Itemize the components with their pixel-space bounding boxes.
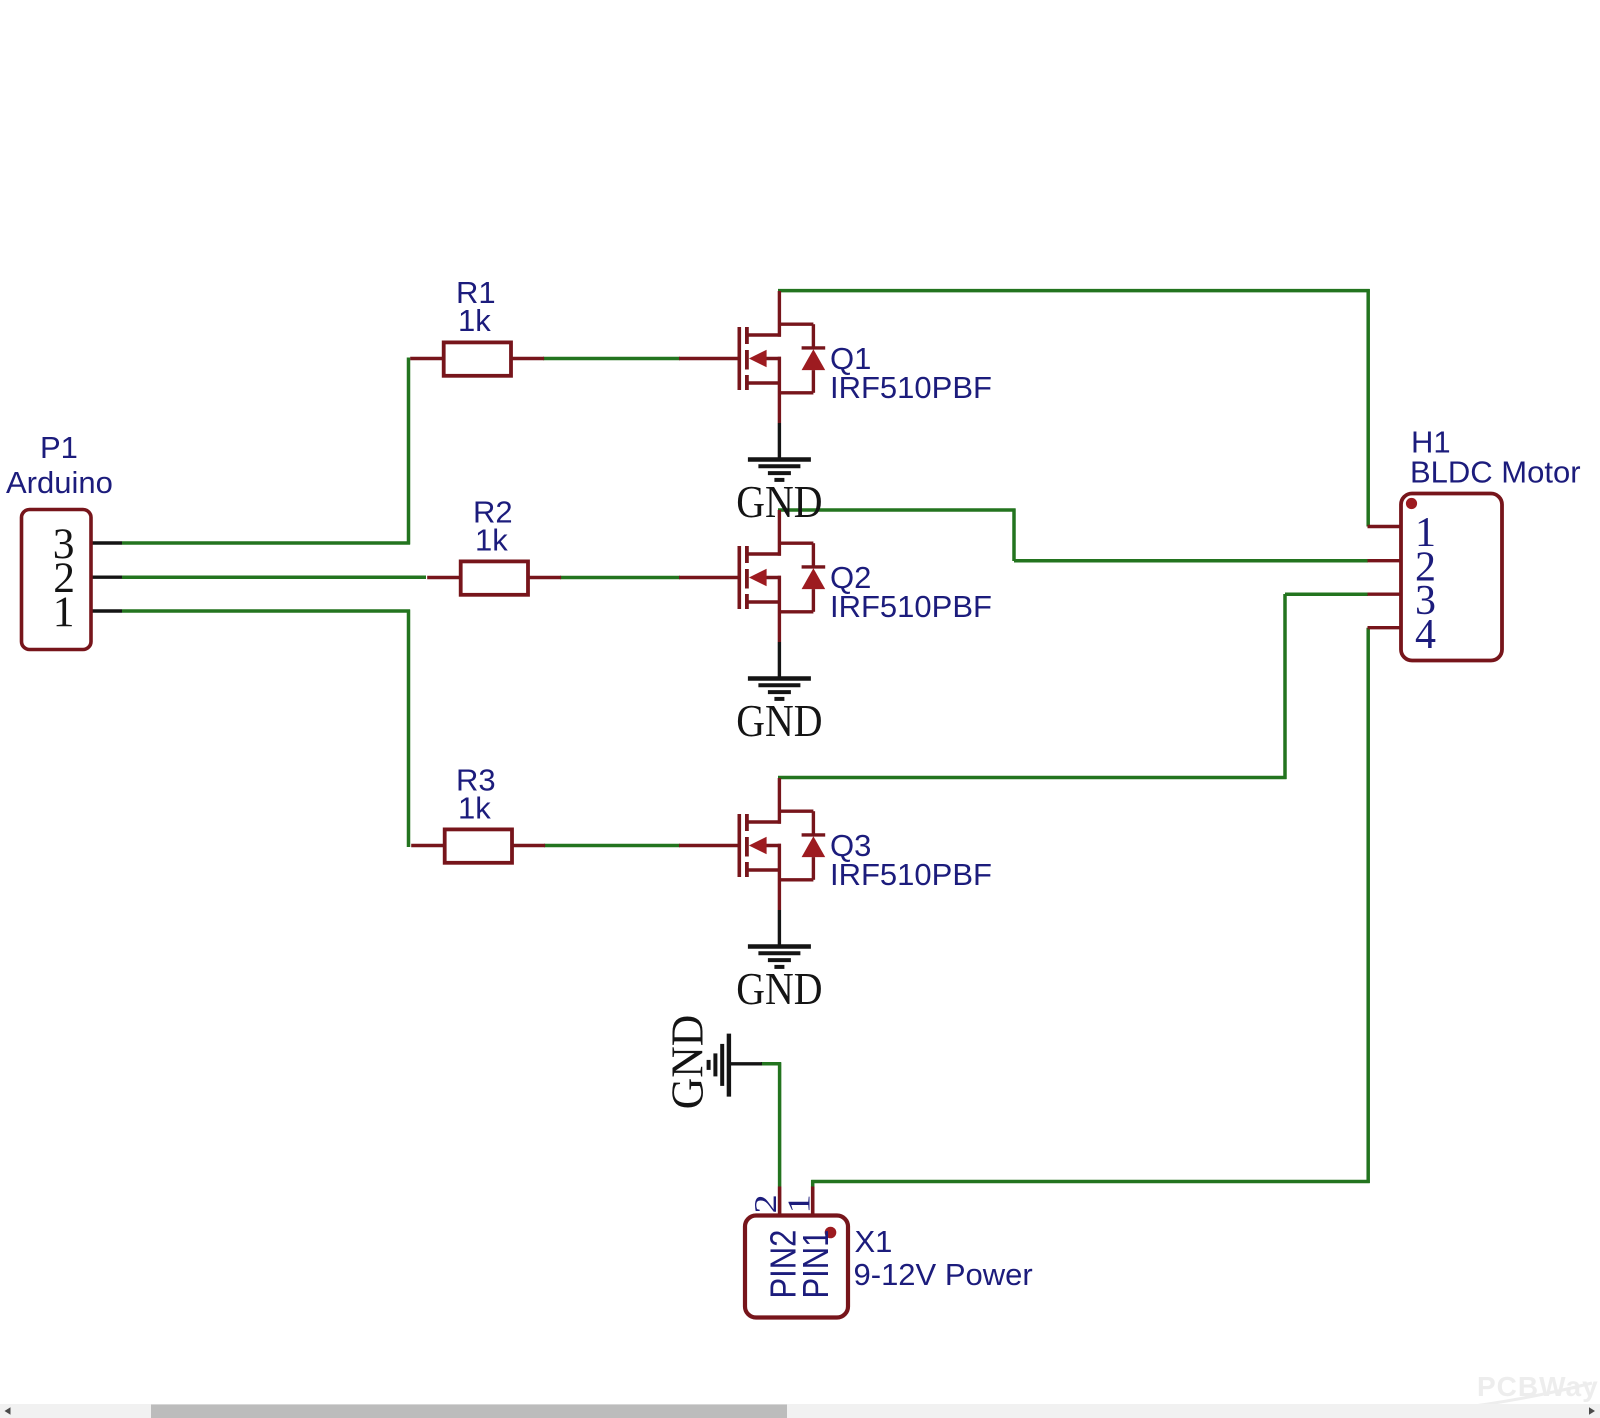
- svg-text:1k: 1k: [475, 523, 508, 558]
- svg-text:2: 2: [748, 1194, 783, 1213]
- resistor R2 1k: [427, 561, 561, 594]
- svg-text:Arduino: Arduino: [6, 465, 113, 500]
- transistor Q3 IRF510PBF: [679, 778, 825, 910]
- svg-text:GND: GND: [662, 1015, 713, 1110]
- net wire P1.3 to R1: [122, 358, 410, 545]
- transistor Q1 IRF510PBF: [679, 291, 825, 423]
- ground GND3: [748, 910, 811, 967]
- svg-text:IRF510PBF: IRF510PBF: [830, 857, 992, 892]
- svg-text:X1: X1: [855, 1224, 893, 1259]
- net wire X1 pin 2 to GND4: [761, 1062, 781, 1186]
- connector P1 (Arduino header): [22, 510, 123, 650]
- svg-text:IRF510PBF: IRF510PBF: [830, 370, 992, 405]
- PCBWay watermark: [1452, 1371, 1599, 1409]
- svg-text:GND: GND: [736, 697, 822, 747]
- svg-text:GND: GND: [736, 478, 822, 528]
- horizontal scrollbar track: [0, 1404, 1600, 1418]
- net wire R2 to Q2 gate: [560, 576, 680, 580]
- svg-text:P1: P1: [40, 430, 78, 465]
- svg-text:1k: 1k: [458, 303, 491, 338]
- ground GND4 (rotated): [709, 1034, 762, 1097]
- net wire Q1 drain to H1 pin 1: [778, 289, 1370, 526]
- resistor R1 1k: [410, 342, 544, 375]
- ground GND2: [748, 642, 811, 699]
- scrollbar left arrow: [5, 1407, 11, 1415]
- svg-text:1: 1: [781, 1194, 816, 1213]
- svg-text:GND: GND: [736, 965, 822, 1015]
- scrollbar thumb: [151, 1405, 787, 1418]
- net wire P1.1 to R3: [122, 610, 410, 848]
- net wire P1.2 to R2: [122, 575, 426, 579]
- net wire Q2 drain to H1 pin 2: [778, 509, 1368, 562]
- ground GND1: [748, 423, 811, 480]
- resistor R3 1k: [411, 829, 545, 862]
- net wire Q3 drain to H1 pin 3: [778, 594, 1368, 779]
- svg-text:IRF510PBF: IRF510PBF: [830, 589, 992, 624]
- net wire X1 pin 1 to H1 pin 4: [811, 628, 1369, 1187]
- scrollbar right arrow: [1589, 1407, 1595, 1415]
- H1 origin dot: [1406, 498, 1417, 509]
- connector X1 (9-12V Power): [745, 1187, 848, 1318]
- svg-text:1: 1: [53, 588, 75, 636]
- svg-text:BLDC Motor: BLDC Motor: [1410, 455, 1581, 490]
- transistor Q2 IRF510PBF: [679, 510, 825, 642]
- connector H1 (BLDC Motor): [1368, 494, 1503, 661]
- X1 origin dot: [825, 1227, 837, 1239]
- svg-text:1k: 1k: [458, 791, 491, 826]
- svg-text:4: 4: [1415, 612, 1436, 658]
- net wire R3 to Q3 gate: [544, 844, 680, 848]
- svg-text:PIN1: PIN1: [796, 1230, 837, 1299]
- net wire R1 to Q1 gate: [543, 357, 680, 361]
- svg-text:9-12V Power: 9-12V Power: [854, 1257, 1033, 1292]
